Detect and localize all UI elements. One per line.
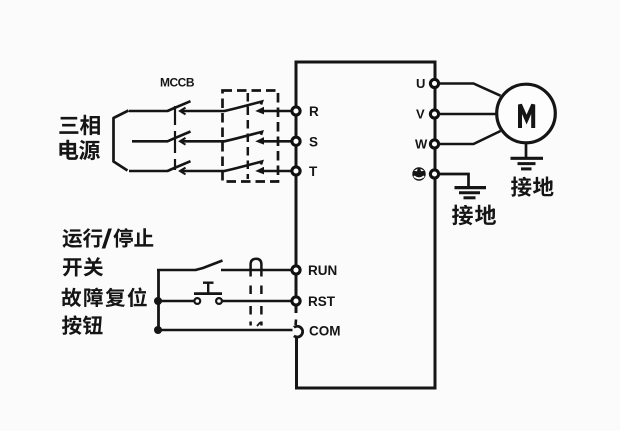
wire: reset button to RST terminal [222,300,292,303]
svg-text:MCCB: MCCB [160,76,195,90]
terminal R [292,104,319,119]
svg-text:U: U [416,76,425,91]
wire: source to breaker pole R [129,110,168,113]
wire: motor to earth [525,143,528,158]
svg-text:W: W [415,137,428,152]
wire: source to breaker pole S [132,140,168,143]
wire: source to breaker pole T [129,170,168,173]
terminal RST [292,294,336,309]
svg-text:S: S [309,135,318,150]
terminal U [416,76,439,91]
label 接地 (motor ground) [511,177,554,197]
wire: PE terminal to earth [439,174,469,186]
control bus vertical wire [157,270,160,330]
shielded-cable loop over control wires [251,259,262,326]
breaker mechanical linkage [174,106,176,170]
wire: bus to run switch [157,269,196,272]
terminal T [292,164,318,179]
label: three-phase supply 三相电源 [59,115,100,160]
inverter box [296,62,435,388]
wire: bus to COM terminal [158,329,293,332]
svg-text:RST: RST [308,294,336,309]
three-phase source bracket [114,111,129,171]
svg-text:V: V [416,107,425,122]
terminal S [292,135,318,150]
earth symbol (inverter ground) [455,188,487,198]
breaker QF pole S (blade + contact arrow) [168,132,191,145]
contactor main contact pole T [225,162,264,174]
svg-text:T: T [309,164,318,179]
motor M1 [497,84,556,143]
run/stop switch blade [196,261,223,271]
label 接地 (inverter ground) [452,205,496,226]
svg-text:COM: COM [309,324,341,339]
contactor main contact pole S [225,132,264,144]
junction dot at COM bus [154,326,162,334]
wire: run switch to RUN terminal [221,269,292,272]
contactor main contact pole R [225,102,264,114]
wire: contactor T to terminal T [260,170,292,173]
wire: W to motor [439,131,501,144]
terminal COM (open circle on box edge) [294,324,341,339]
grounding terminal PE [430,170,438,178]
terminal V [416,107,439,122]
junction dot at RST bus [154,297,162,305]
earth symbol (motor ground) [511,158,544,169]
contactor mechanical linkage (dashed) [247,93,250,179]
breaker QF pole T (blade + contact arrow) [168,161,191,174]
wire: contactor R to terminal R [260,110,292,113]
wire: breaker T to contactor [182,170,226,173]
wire: U to motor [439,84,501,96]
wire: breaker S to contactor [182,140,226,143]
wire: bus to reset button [157,300,195,303]
label: run/stop switch, fault reset button (4 lines) [62,228,154,335]
terminal RUN [292,263,337,278]
svg-text:R: R [309,104,319,119]
wire: V to motor [439,113,497,116]
terminal W [415,137,439,152]
circled earth symbol [412,167,425,180]
contactor KM dashed enclosure [223,91,279,182]
wire: contactor S to terminal S [260,140,292,143]
svg-text:RUN: RUN [308,263,337,278]
reset pushbutton (plunger + bridge + contacts) [194,283,222,304]
breaker QF pole R (blade + contact arrow) [168,101,191,114]
wire: breaker R to contactor [182,110,226,113]
